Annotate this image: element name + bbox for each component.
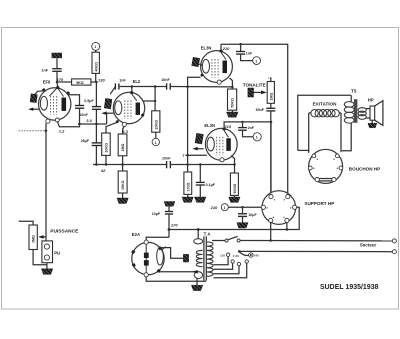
wire C1 to grid node [56,71,58,82]
svg-text:25μF: 25μF [81,139,90,143]
EL3N1 left pin square [200,73,204,77]
node 16uF tap [241,206,244,209]
EL3N2 grid dashed electrodes [216,137,218,156]
svg-text:16μF: 16μF [248,213,257,217]
EL2 bottom-left pin square [116,120,120,123]
EL3N1 grid dashed electrodes [211,59,213,78]
capacitor 1nF (grid cap) [52,69,61,72]
selector tap lead 2 [214,263,233,269]
resistor 1MOhm grid return [118,134,127,156]
svg-text:1MΩ: 1MΩ [32,235,36,243]
tone resistor top stub [270,77,272,81]
wire screen to R20K screen [143,100,155,102]
bias bus capacitor 10nF series [167,161,171,168]
wire EL3N2 cathode drop [231,156,234,174]
svg-text:E2A: E2A [132,232,140,237]
wire C2nF to circled 1 [243,130,253,137]
svg-text:PUISSANCE: PUISSANCE [50,228,79,234]
wire excitation left stub [309,112,312,114]
svg-text:50KΩ: 50KΩ [231,98,235,108]
wire stopper to tube [199,64,202,66]
wire HT return bus [169,229,287,231]
EL3N2 cathode oval [207,137,214,151]
wire R5K to B node [91,81,97,83]
svg-text:TONALITE: TONALITE [243,82,266,87]
wire grid riser EL3N1 [188,77,201,87]
wire R40K to node [95,73,97,82]
wire bus to C 0.1uF [199,165,201,183]
TA core [203,236,205,280]
tube EL3N no2 envelope [205,128,237,160]
wire stub left (dashed look) [19,130,46,132]
ground (below 170) [182,197,193,202]
svg-text:1nF: 1nF [42,69,49,73]
node EL2 anode top [131,85,134,88]
wire TA primary top riser [197,230,199,239]
wire EF6 anode to C10nF [68,95,80,105]
EL3N1 cathode oval [202,59,209,73]
wire node down through C 0.5uF [95,82,97,106]
svg-text:210: 210 [222,46,230,51]
svg-text:0,5μF: 0,5μF [84,99,94,103]
E2A right-bottom edge square [157,269,161,273]
svg-text:170Ω: 170Ω [186,183,190,192]
svg-text:5000Ω: 5000Ω [233,183,237,193]
EL2 grid pot hatch [104,98,112,108]
svg-text:1nF: 1nF [246,51,253,55]
resistor 170 Ohm cathode [184,172,192,194]
EL2 internal lead [132,94,137,101]
EF6 bottom pin circle [55,118,59,122]
capacitor 1nF (HT) [236,52,245,55]
EL3N1 top pin square [220,50,223,53]
secteur terminal bottom [392,250,396,254]
node 1nF tap [239,43,242,46]
EF6 upper-left pin square [42,88,46,92]
support pin top-left [269,195,273,199]
wire EL2 bottom-left pin to R20K cathode [106,122,118,133]
wire circled1 to support HP [228,206,261,208]
svg-text:EF6: EF6 [43,79,51,84]
wire TS primary bottom to bouchon [342,123,351,151]
tube E2A envelope [132,242,164,274]
resistor 15KOhm bias [118,171,127,193]
svg-text:1: 1 [256,136,258,140]
secteur terminal top [392,239,396,243]
wire bouchon left [298,149,310,151]
svg-text:3.3: 3.3 [122,129,128,134]
EL3N2 internal lead [224,130,229,137]
EL3N1 anode plate [223,61,228,74]
EL2 top pin square [130,91,133,94]
wire tube to pot top [35,91,46,95]
EL2 cathode pin circle [122,122,126,126]
svg-text:0,1μF: 0,1μF [206,183,216,187]
selector contact 220 [237,262,240,265]
EL3N2 top pin square [223,128,226,131]
capacitor 25uF [92,143,101,146]
wire secondary to HP [366,108,370,110]
wire EL2 cathode pin to R1M [123,127,125,135]
support pin left [261,205,265,209]
svg-text:1: 1 [224,206,226,210]
wire pot stub to bus [110,87,115,95]
svg-text:1MΩ: 1MΩ [121,144,125,152]
selector tap lead 1 [214,256,229,264]
svg-text:3.0: 3.0 [86,118,92,123]
wire screen node up to bus [154,87,156,111]
PU terminal top [44,244,49,249]
svg-text:1MΩ: 1MΩ [269,93,273,101]
svg-text:20KΩ: 20KΩ [154,120,158,130]
svg-text:50nF: 50nF [256,108,265,112]
grid bus wire y86.5 [119,86,166,88]
wire R15K to ground [122,193,124,198]
wire TS primary top lead [350,95,352,102]
antenna hatch pad [52,53,62,58]
capacitor 0,1uF [196,182,205,185]
E2A left-bottom edge square [132,263,136,267]
ground (below 0.1uF) [195,197,206,202]
svg-text:HP: HP [368,97,374,102]
svg-text:EXITATION: EXITATION [313,101,338,106]
svg-text:20KΩ: 20KΩ [105,143,109,153]
EL2 screen pin square [141,113,145,117]
wire E2A cathode to TA [146,277,206,281]
wire excitation left drop [308,113,310,153]
svg-text:T A: T A [204,232,212,237]
E2A left-top edge square [131,250,135,254]
wire C0.5 to node 3.0 [95,109,97,124]
svg-text:SUDEL 1935/1938: SUDEL 1935/1938 [320,284,379,291]
wire anode top lead [131,87,133,93]
E2A top pin circle [144,240,148,244]
svg-text:TS: TS [351,89,357,94]
svg-text:170: 170 [57,77,64,82]
wire EL3N1 anode drop [230,78,233,89]
wire C25uF to bias bus [95,146,97,165]
svg-text:BOUCHON HP: BOUCHON HP [349,166,380,171]
EL3N2 bottom pin circle [220,158,224,162]
ground (below HP) [368,123,377,128]
support HP wires top [270,122,272,196]
puissance wiper arrow [41,236,46,238]
svg-text:1: 1 [155,141,157,145]
wire C10nF to bus [79,108,81,124]
wire support bottom-left drop [270,223,272,241]
bouchon pin bottom-right [332,178,336,182]
bouchon pin left [308,166,312,170]
ground (below 50K) [227,112,239,117]
capacitor 16uF [238,214,247,217]
circled node 1 (top right) [253,57,261,65]
capacitor 10nF (anode) [75,106,84,109]
bouchon shorting bar [319,178,332,180]
E2A filament oval [157,247,164,265]
pot wiper arrow (EF6 grid) [31,108,39,110]
fuse hatch (TA) [183,254,188,262]
E2A anode plate 2 [144,260,149,265]
ground (below 5000) [229,197,240,202]
ground (below PU) [41,269,52,275]
svg-text:10μF: 10μF [152,212,161,216]
speaker HP [370,106,375,120]
wire R50K to ground [231,110,233,112]
wire wiper to secteur [239,250,392,252]
circled node 1 (210) [221,204,228,211]
capacitor 10uF [165,212,173,215]
tone wiper arrow [254,91,264,93]
transformer TS secondary loops [358,108,366,120]
wire EL3N2 anode top riser [224,122,271,129]
wire wiper to node 3.0 [106,113,108,124]
EL2 cathode oval [115,101,122,115]
svg-text:2nF: 2nF [248,126,255,130]
wire pot top [19,221,33,225]
support pin number specks [266,199,291,218]
svg-text:2 20: 2 20 [233,254,239,258]
PU terminal bottom [44,255,49,260]
resistor 5000 Ohm [230,173,238,195]
wire R20K to bus [105,155,107,164]
wire E2A filament bottom run [160,271,196,273]
EL3N2 grid stopper hatch [195,133,203,144]
field coil EXITATION [311,110,339,117]
connector PU box [42,241,53,263]
wire TS loop top [298,95,351,150]
volume pot hatch (grid) [30,94,37,103]
bouchon pin right [339,166,343,170]
grid bus wire after cap [170,86,232,88]
tube EF6 envelope [39,88,71,120]
bias bus horizontal [93,164,166,166]
EL3N1 internal lead [221,52,226,60]
svg-text:10nF: 10nF [79,113,88,117]
svg-text:1,2: 1,2 [59,129,65,134]
wire HT top bus [221,44,288,196]
svg-text:130: 130 [98,77,105,82]
wire tap to C2nF [242,122,244,127]
ground (above 10uF) [164,202,175,207]
transformer TS core [354,99,358,123]
EF6 internal leads [58,89,64,97]
selector tap lead 3 [214,266,240,274]
capacitor 2nF [238,128,247,131]
bias bus right part [170,164,234,166]
wire R170 to ground [187,194,189,197]
EF6 cathode oval [40,96,47,110]
wire ground to C10uF [168,206,170,211]
wire C50nF down to support HP [270,111,272,196]
svg-text:245: 245 [254,253,259,257]
node 130 [95,81,98,84]
wire bus to R15K [122,165,124,172]
E2A anode plate 1 [144,253,149,258]
bouchon pin top-left [312,154,316,158]
resistor 40KOhm vertical [92,52,99,73]
svg-text:42: 42 [100,168,106,173]
TA bottom single loop [194,272,202,279]
capacitor 10nF series (coupling to EL3N) [167,83,171,89]
EL2 grid dashed electrodes [124,101,126,120]
wire HP to ground [371,120,373,123]
svg-text:170: 170 [171,223,178,228]
wire node to C25uF [95,124,97,143]
svg-text:1nF: 1nF [119,78,126,82]
wire excitation right stub [339,112,341,114]
circled node 1 (top left) [92,42,100,50]
mains switch [225,239,228,242]
svg-text:7: 7 [182,154,184,158]
transformer TS primary loops [344,102,354,124]
wire riser to R170 [187,155,189,172]
wire R20K to circled 1 [155,132,157,138]
support pin bottom-right [285,218,289,222]
support HP circle [262,191,296,225]
EL2 anode plate [136,103,140,115]
ground (below 15K) [117,198,128,204]
wire grid EL3N2 [185,154,206,156]
svg-text:1: 1 [255,59,257,63]
TA secondary coil [207,242,213,276]
wire secondary top to switch [212,240,225,242]
capacitor 0,5uF [92,107,101,110]
svg-text:EL3N: EL3N [201,45,212,50]
E2A right-top edge square [158,246,162,250]
resistor 1MOhm puissance pot [29,225,37,250]
svg-text:10nF: 10nF [161,78,170,82]
wire C1nF to circled 1 [241,54,253,61]
wire circled1 to R 40K [95,50,97,52]
circled node 1 (2nF) [253,133,261,141]
wire R to C50nF [270,103,272,108]
ground (below TA) [191,285,202,290]
tone pot hatch [248,88,254,97]
wire E2A filament top run [161,248,183,259]
svg-text:EL3N: EL3N [204,123,215,128]
wire R1M to bus [122,156,124,165]
EF6 anode plate [62,98,67,111]
node 2nF tap [241,121,243,123]
resistor 20KOhm cathode [102,133,111,155]
ground (below 16uF) [237,223,248,228]
EL3N1 bottom pin circle [217,80,221,84]
resistor 50KOhm [228,89,237,110]
EF6 grid dashed electrodes [50,96,52,115]
svg-text:5KΩ: 5KΩ [76,81,84,85]
wire excitation right drop [340,113,342,152]
selector wiper [239,251,249,255]
TA top single loop [194,239,203,244]
node grid-top [56,81,59,84]
EF6 grid top square [56,86,59,89]
resistor 5KOhm horizontal [72,79,91,85]
wire support right loop [287,207,299,229]
wire tap to C16uF [242,207,244,213]
bouchon pin number specks [313,159,338,169]
support pin right [293,205,297,209]
EF6 cathode pin circle [46,119,50,123]
tube EL3N no1 envelope [201,51,233,83]
resistor 20KOhm screen [152,111,160,132]
svg-text:PU: PU [54,250,60,255]
wire cathode vertical long [45,123,47,241]
wire R5000 to ground [234,195,236,197]
wire switch to secteur [240,240,392,242]
svg-text:110: 110 [220,253,225,257]
svg-text:1: 1 [94,45,96,49]
selector contact 110 [226,253,229,256]
E2A bottom pin circle [144,273,148,277]
support pin top-right [286,195,290,199]
EL3N2 anode plate [226,138,231,151]
E2A filament lead [162,247,166,250]
wire antenna to C1 [56,58,58,68]
svg-text:SUPPORT HP: SUPPORT HP [304,201,334,206]
bouchon pin bottom-left [315,178,319,182]
selector contact 245a [245,260,248,263]
wire C16uF to ground [242,216,244,222]
wire PU to ground [46,263,48,269]
capacitor 50nF [266,108,275,111]
TA mid coil [196,250,202,266]
svg-text:10nF: 10nF [162,157,171,161]
wire C10uF to node 170 [168,214,170,237]
svg-text:15KΩ: 15KΩ [121,180,125,190]
svg-text:210: 210 [210,205,218,210]
wire node to E2A plate [146,237,169,240]
selector contact 130 [231,260,234,263]
EL3N2 wiper arrow [195,148,204,150]
wire node to R 5K [57,81,72,83]
wire node to tube grid pin [56,82,59,88]
EL3N1 grid stopper hatch [192,57,200,66]
capacitor 1nF series (EL2 top) [115,83,119,89]
circled node 1 (EL2 screen) [152,138,159,145]
wire tap to C1nF [240,44,242,51]
wire TA core to ground [196,279,198,286]
TA heater arrow [192,270,197,274]
wire pot bottom to PU [33,250,47,265]
selector active contact [249,253,253,257]
node wire 3.0 horizontal [78,123,107,125]
bouchon pin top-right [335,154,339,158]
support pin bottom-left [269,218,273,222]
selector tap lead 4 [214,263,247,278]
wire EF6 cathode lead [57,121,79,127]
node cathode junction [45,130,48,133]
EL2 pot wiper arrow [104,112,114,114]
wire EL3N1 plate top riser [220,44,222,50]
bouchon HP circle [309,149,343,183]
svg-text:Secteur: Secteur [360,242,377,247]
svg-text:40KΩ: 40KΩ [94,62,98,72]
svg-text:EL2: EL2 [133,79,141,84]
EF6 anode exit pin square [66,91,70,95]
wire C0.1 to ground [199,185,201,197]
wire grid drop to EL3N2 [187,87,189,156]
tone resistor 1MOhm [267,82,274,104]
tube EL2 envelope [113,92,144,123]
E2A centre electrode line [145,243,147,275]
